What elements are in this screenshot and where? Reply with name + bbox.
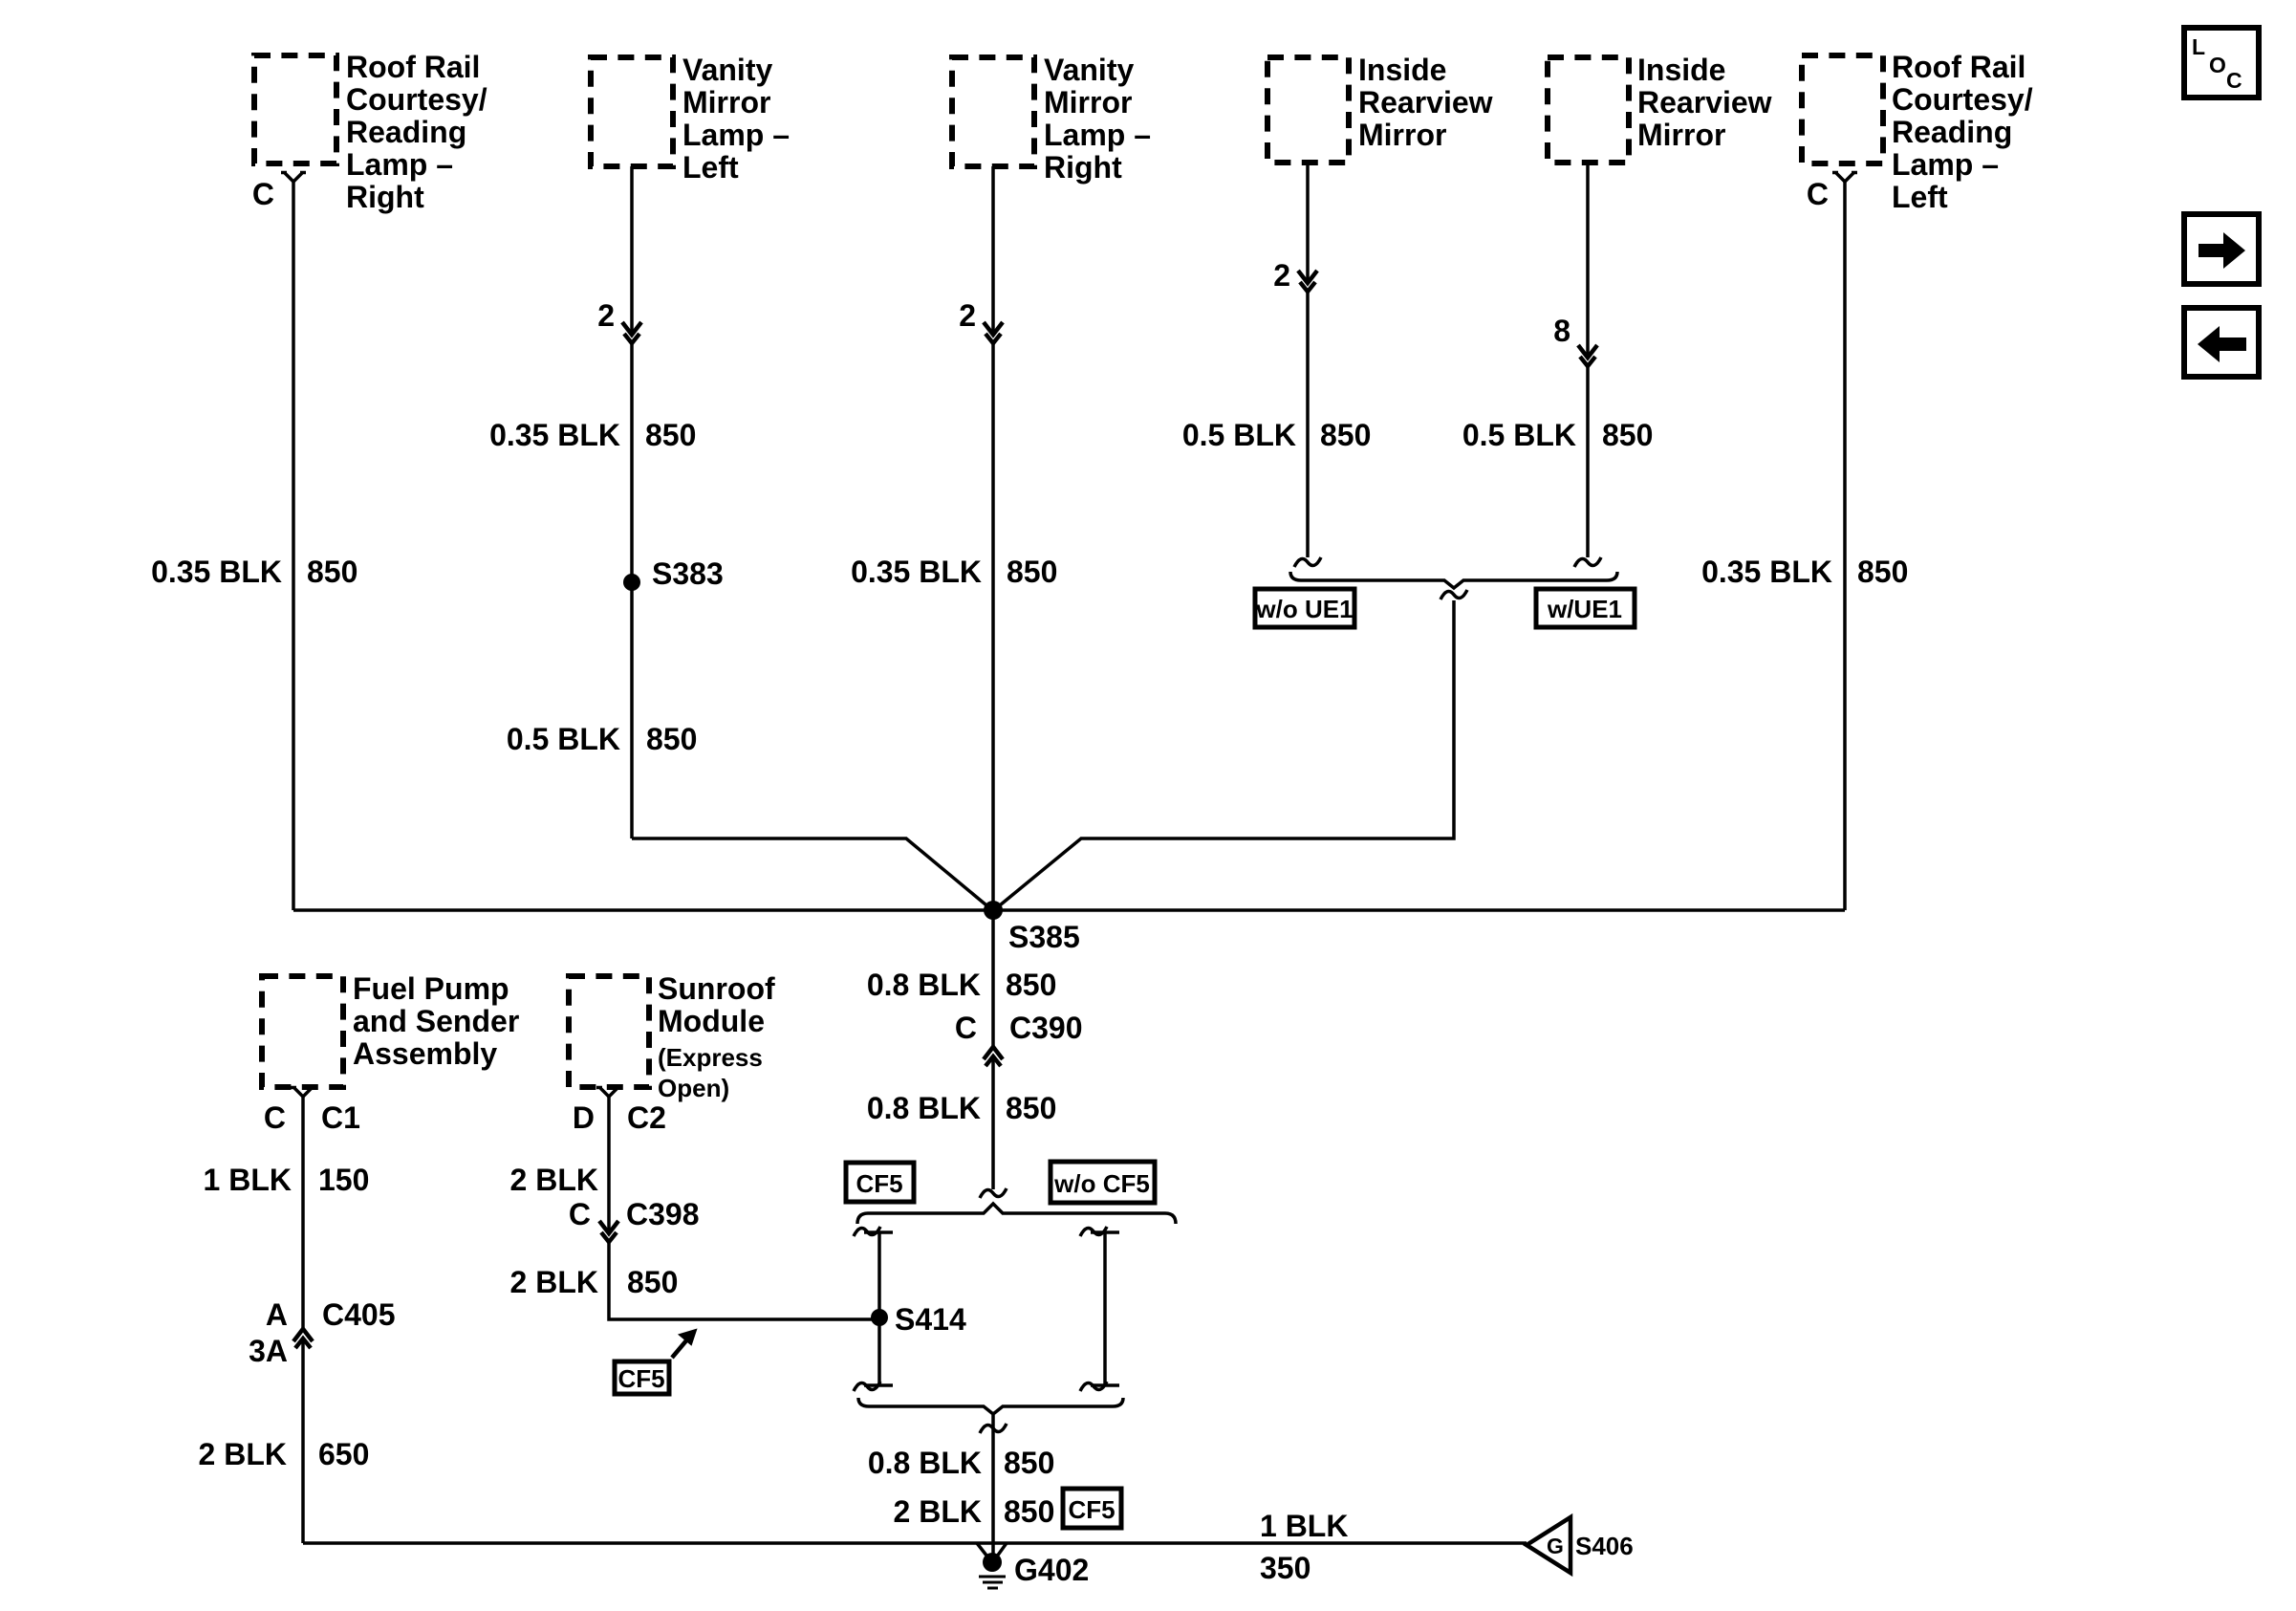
svg-text:850: 850 xyxy=(646,722,697,756)
svg-text:Reading: Reading xyxy=(346,115,466,149)
svg-text:Rearview: Rearview xyxy=(1637,85,1772,120)
svg-text:3A: 3A xyxy=(249,1334,288,1368)
svg-text:0.5 BLK: 0.5 BLK xyxy=(507,722,620,756)
svg-text:(Express: (Express xyxy=(658,1043,763,1072)
svg-text:CF5: CF5 xyxy=(617,1364,664,1393)
svg-text:C1: C1 xyxy=(321,1100,360,1135)
svg-text:850: 850 xyxy=(1006,968,1056,1002)
svg-text:and Sender: and Sender xyxy=(353,1004,519,1038)
svg-text:Rearview: Rearview xyxy=(1358,85,1493,120)
svg-text:L: L xyxy=(2192,34,2205,59)
svg-text:Module: Module xyxy=(658,1004,765,1038)
svg-text:Vanity: Vanity xyxy=(1044,53,1134,87)
svg-text:Vanity: Vanity xyxy=(682,53,772,87)
svg-text:Lamp –: Lamp – xyxy=(346,147,453,182)
svg-text:C: C xyxy=(2226,68,2242,93)
svg-text:850: 850 xyxy=(1004,1494,1054,1529)
svg-text:Fuel Pump: Fuel Pump xyxy=(353,971,509,1006)
svg-text:2 BLK: 2 BLK xyxy=(510,1265,598,1299)
svg-text:Assembly: Assembly xyxy=(353,1036,497,1071)
svg-text:C: C xyxy=(569,1197,591,1231)
svg-text:Left: Left xyxy=(1892,180,1948,214)
svg-text:0.5 BLK: 0.5 BLK xyxy=(1182,418,1296,452)
svg-text:C: C xyxy=(1807,177,1829,211)
svg-text:C398: C398 xyxy=(626,1197,700,1231)
svg-text:0.8 BLK: 0.8 BLK xyxy=(868,1446,982,1480)
svg-text:Courtesy/: Courtesy/ xyxy=(346,82,487,117)
svg-text:850: 850 xyxy=(1004,1446,1054,1480)
svg-text:8: 8 xyxy=(1553,314,1570,348)
svg-text:w/o CF5: w/o CF5 xyxy=(1053,1169,1150,1198)
svg-text:G402: G402 xyxy=(1014,1553,1089,1587)
svg-text:0.8 BLK: 0.8 BLK xyxy=(867,1091,981,1125)
svg-text:850: 850 xyxy=(1857,555,1908,589)
svg-text:C2: C2 xyxy=(627,1100,666,1135)
svg-text:S383: S383 xyxy=(652,556,724,591)
svg-text:1 BLK: 1 BLK xyxy=(1260,1509,1348,1543)
svg-text:Lamp –: Lamp – xyxy=(1044,118,1151,152)
svg-text:0.5 BLK: 0.5 BLK xyxy=(1462,418,1576,452)
svg-text:C390: C390 xyxy=(1009,1011,1083,1045)
svg-text:850: 850 xyxy=(1006,1091,1056,1125)
svg-text:Mirror: Mirror xyxy=(1358,118,1446,152)
svg-text:Mirror: Mirror xyxy=(682,85,770,120)
svg-text:CF5: CF5 xyxy=(1068,1495,1115,1524)
svg-text:850: 850 xyxy=(307,555,357,589)
svg-text:Lamp –: Lamp – xyxy=(1892,147,1999,182)
svg-text:2 BLK: 2 BLK xyxy=(894,1494,982,1529)
svg-text:150: 150 xyxy=(318,1163,369,1197)
svg-text:2: 2 xyxy=(597,298,615,333)
svg-text:O: O xyxy=(2209,53,2226,77)
svg-text:Mirror: Mirror xyxy=(1637,118,1725,152)
svg-text:Mirror: Mirror xyxy=(1044,85,1132,120)
svg-text:2 BLK: 2 BLK xyxy=(510,1163,598,1197)
svg-text:0.35 BLK: 0.35 BLK xyxy=(489,418,620,452)
svg-text:S414: S414 xyxy=(895,1302,966,1337)
svg-text:0.8 BLK: 0.8 BLK xyxy=(867,968,981,1002)
svg-text:A: A xyxy=(266,1297,288,1332)
svg-text:Lamp –: Lamp – xyxy=(682,118,790,152)
svg-text:C: C xyxy=(264,1100,286,1135)
svg-text:0.35 BLK: 0.35 BLK xyxy=(851,555,982,589)
svg-text:Left: Left xyxy=(682,150,739,185)
svg-text:w/UE1: w/UE1 xyxy=(1547,595,1622,623)
svg-text:Reading: Reading xyxy=(1892,115,2012,149)
svg-text:2: 2 xyxy=(1273,258,1290,293)
svg-text:CF5: CF5 xyxy=(856,1169,902,1198)
svg-text:Right: Right xyxy=(1044,150,1122,185)
svg-text:w/o UE1: w/o UE1 xyxy=(1255,595,1353,623)
svg-text:2 BLK: 2 BLK xyxy=(199,1437,287,1471)
svg-text:850: 850 xyxy=(645,418,696,452)
svg-text:850: 850 xyxy=(1320,418,1371,452)
svg-text:0.35 BLK: 0.35 BLK xyxy=(1701,555,1832,589)
svg-text:C405: C405 xyxy=(322,1297,396,1332)
svg-text:0.35 BLK: 0.35 BLK xyxy=(151,555,282,589)
svg-text:S406: S406 xyxy=(1575,1532,1634,1560)
svg-text:850: 850 xyxy=(627,1265,678,1299)
svg-text:1 BLK: 1 BLK xyxy=(204,1163,292,1197)
svg-text:Open): Open) xyxy=(658,1074,729,1102)
svg-text:Inside: Inside xyxy=(1637,53,1725,87)
svg-text:Roof Rail: Roof Rail xyxy=(1892,50,2025,84)
svg-text:G: G xyxy=(1547,1534,1564,1558)
svg-text:S385: S385 xyxy=(1008,920,1080,954)
svg-text:350: 350 xyxy=(1260,1551,1310,1585)
svg-text:Roof Rail: Roof Rail xyxy=(346,50,480,84)
svg-text:650: 650 xyxy=(318,1437,369,1471)
svg-text:850: 850 xyxy=(1007,555,1057,589)
svg-text:Courtesy/: Courtesy/ xyxy=(1892,82,2033,117)
svg-text:D: D xyxy=(573,1100,595,1135)
svg-text:Sunroof: Sunroof xyxy=(658,971,775,1006)
svg-text:C: C xyxy=(955,1011,977,1045)
svg-text:850: 850 xyxy=(1602,418,1653,452)
svg-text:C: C xyxy=(252,177,274,211)
svg-text:2: 2 xyxy=(959,298,976,333)
svg-text:Right: Right xyxy=(346,180,424,214)
svg-text:Inside: Inside xyxy=(1358,53,1446,87)
